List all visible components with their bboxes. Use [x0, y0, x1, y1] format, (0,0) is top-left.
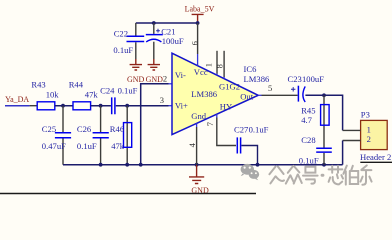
hao	[303, 167, 318, 184]
capacitor C28	[299, 135, 332, 165]
resistor R45 branch	[301, 95, 329, 147]
svg-text:GND: GND	[146, 75, 164, 84]
svg-text:Vcc: Vcc	[194, 67, 208, 77]
svg-text:Vi+: Vi+	[175, 101, 188, 111]
svg-text:C26: C26	[77, 124, 92, 134]
svg-text:HY: HY	[220, 102, 232, 112]
resistor R43	[31, 80, 59, 110]
svg-text:C28: C28	[301, 135, 315, 145]
svg-text:Ya_DA: Ya_DA	[5, 95, 29, 104]
pin 8 (G2)	[223, 51, 225, 77]
wire pin2 to ground rail	[141, 84, 169, 165]
pin 3 stub	[169, 105, 173, 107]
watermark wechat icon	[241, 164, 260, 180]
wire out net	[305, 95, 342, 130]
svg-text:Laba_5V: Laba_5V	[185, 5, 215, 14]
node junction R44/C24/C26	[99, 104, 103, 108]
svg-text:R44: R44	[69, 80, 84, 90]
capacitor C26 branch	[77, 106, 109, 165]
ground (under C21)	[146, 59, 164, 84]
node junction out/R45	[322, 93, 326, 97]
svg-text:4.7: 4.7	[301, 115, 312, 125]
wire input	[5, 105, 30, 107]
ground (under C22)	[127, 59, 145, 84]
svg-text:0.47uF: 0.47uF	[42, 141, 66, 151]
svg-text:1: 1	[203, 63, 213, 67]
capacitor C23 (polarized)	[288, 74, 325, 102]
svg-text:R46: R46	[110, 124, 125, 134]
pin P3-2	[343, 140, 361, 142]
svg-text:0.1uF: 0.1uF	[249, 124, 269, 134]
svg-text:0.1uF: 0.1uF	[299, 156, 319, 166]
capacitor C21 (polarized)	[146, 23, 184, 59]
border line bottom	[0, 193, 256, 195]
svg-text:C22: C22	[114, 28, 128, 38]
pin 4 (Gnd)	[196, 123, 198, 127]
svg-text:0.1uF: 0.1uF	[77, 141, 97, 151]
svg-text:R43: R43	[31, 80, 45, 90]
svg-text:Vi-: Vi-	[175, 70, 186, 80]
svg-text:Header 2: Header 2	[360, 152, 391, 162]
svg-text:2: 2	[163, 73, 167, 83]
pin 5 (Out) wire	[258, 94, 261, 96]
node junctions on ground rail	[99, 163, 103, 167]
capacitor C25 branch	[42, 106, 71, 165]
capacitor C22	[113, 23, 144, 59]
xin	[329, 166, 343, 185]
node junction 5V-pin6	[196, 21, 200, 25]
pin 6 (Vcc)	[197, 23, 199, 54]
svg-text:5: 5	[268, 83, 272, 93]
power port Laba_5V	[185, 5, 215, 23]
bo	[343, 166, 358, 185]
ground (bottom)	[189, 165, 209, 195]
wire P3-2 to ground rail	[342, 141, 344, 165]
svg-text:0.1uF: 0.1uF	[113, 45, 133, 55]
svg-text:P3: P3	[361, 110, 370, 120]
svg-text:100uF: 100uF	[162, 36, 184, 46]
svg-text:0.1uF: 0.1uF	[118, 86, 138, 96]
svg-text:47k: 47k	[111, 141, 125, 151]
svg-text:Out: Out	[240, 91, 254, 101]
wire to pin3	[116, 105, 169, 107]
svg-text:G1G2: G1G2	[219, 82, 240, 92]
resistor R44	[69, 80, 99, 110]
pin 7 (HY)	[216, 114, 218, 117]
dot	[321, 174, 325, 177]
ground rail wire	[63, 164, 343, 166]
watermark text gongzhonghao xinbole	[269, 165, 371, 184]
node junction R43/R44/C25	[61, 104, 65, 108]
pin 1 (G1)	[216, 51, 218, 74]
capacitor C27	[234, 124, 269, 164]
op-amp IC6 LM386 triangle	[172, 53, 258, 134]
svg-text:8: 8	[214, 64, 224, 68]
pin 2 stub	[169, 83, 173, 85]
wire	[91, 105, 111, 107]
gong	[269, 167, 284, 184]
svg-text:C23: C23	[288, 74, 302, 84]
svg-text:2: 2	[367, 134, 371, 144]
pin P3-1	[343, 129, 361, 131]
zhong	[286, 166, 302, 184]
resistor R46 branch	[110, 106, 132, 165]
svg-text:47k: 47k	[85, 90, 99, 100]
wire 5V rail	[136, 22, 198, 24]
svg-text:3: 3	[160, 95, 164, 105]
svg-text:GND: GND	[127, 75, 145, 84]
capacitor C24	[100, 86, 138, 115]
svg-text:Gnd: Gnd	[191, 111, 207, 121]
svg-text:100uF: 100uF	[302, 74, 324, 84]
header P3	[360, 110, 391, 163]
node junction C21-rail	[152, 21, 156, 25]
node junction C24/R46	[125, 104, 129, 108]
svg-text:10k: 10k	[46, 90, 60, 100]
svg-text:LM386: LM386	[191, 89, 217, 99]
svg-text:C27: C27	[234, 124, 249, 134]
svg-text:C25: C25	[42, 124, 56, 134]
svg-text:IC6: IC6	[244, 64, 258, 74]
svg-text:C24: C24	[100, 86, 115, 96]
svg-text:7: 7	[205, 122, 215, 126]
border line under Header 2	[360, 161, 392, 163]
svg-text:6: 6	[189, 41, 199, 45]
svg-text:LM386: LM386	[244, 74, 270, 84]
wire	[55, 105, 73, 107]
le	[361, 165, 372, 184]
